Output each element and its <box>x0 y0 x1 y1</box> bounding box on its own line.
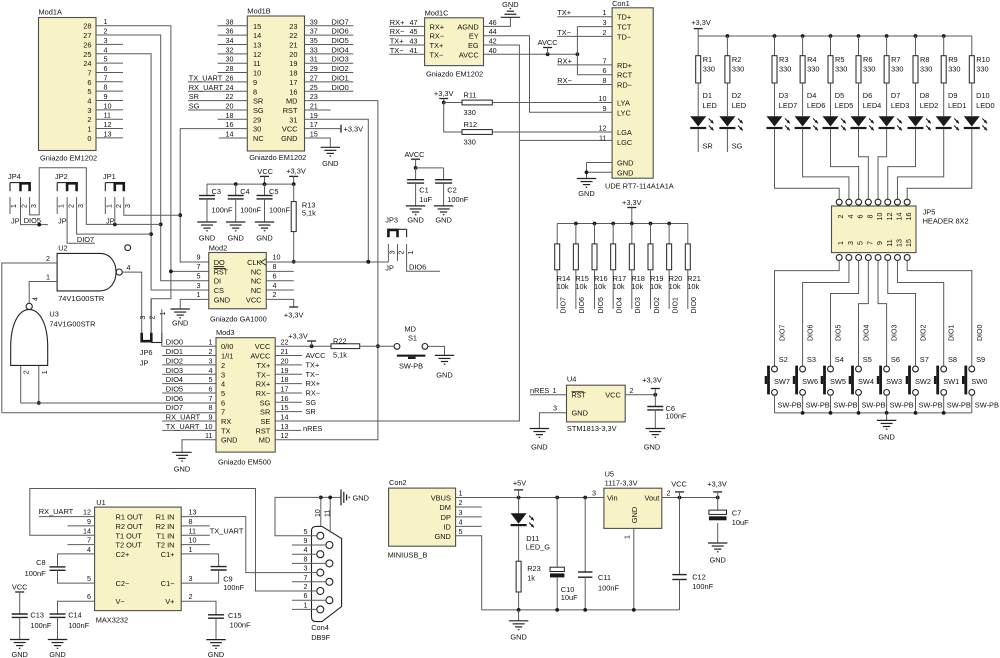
wire Con4 pins 10 11 to ground <box>315 496 341 533</box>
svg-text:37: 37 <box>310 27 318 36</box>
svg-text:LYC: LYC <box>617 108 631 117</box>
svg-text:GND: GND <box>407 216 423 225</box>
svg-text:GND: GND <box>214 295 230 304</box>
svg-text:9: 9 <box>87 517 91 526</box>
svg-text:10: 10 <box>189 536 197 545</box>
ground at USB rail <box>509 610 528 642</box>
wire LED bank rail <box>698 34 972 38</box>
IC U4 STM1813-3,3V <box>553 375 634 433</box>
svg-text:24: 24 <box>226 83 234 92</box>
svg-text:C5: C5 <box>269 187 278 196</box>
svg-text:Gniazdo EM1202: Gniazdo EM1202 <box>426 70 483 79</box>
svg-text:10: 10 <box>104 101 112 110</box>
svg-text:RX−: RX− <box>256 389 271 398</box>
Mod3 right net label stubs <box>275 351 326 416</box>
svg-text:12: 12 <box>599 124 607 133</box>
svg-text:CS: CS <box>214 286 224 295</box>
svg-text:1: 1 <box>459 489 463 498</box>
svg-text:R2 OUT: R2 OUT <box>116 522 144 531</box>
capacitor C9 100nF <box>181 554 244 592</box>
wire VCC rail <box>207 182 296 186</box>
svg-text:3: 3 <box>140 315 147 319</box>
svg-text:12: 12 <box>886 213 894 221</box>
connector Mod3 (Gniazdo EM500) <box>205 328 289 467</box>
svg-text:SW5: SW5 <box>830 377 846 386</box>
svg-text:AVCC: AVCC <box>250 352 271 361</box>
resistor R15 10k <box>573 224 589 314</box>
switch S4 SW5 SW-PB <box>821 325 858 413</box>
ground at Mod1C pin46 AGND <box>484 0 521 27</box>
svg-text:DIO5: DIO5 <box>836 325 843 341</box>
resistor R3 330 <box>772 36 791 83</box>
svg-text:LED: LED <box>732 101 746 110</box>
resistor R4 330 <box>800 36 819 83</box>
svg-text:RX+: RX+ <box>390 18 405 27</box>
svg-text:4: 4 <box>459 517 463 526</box>
svg-text:15: 15 <box>253 22 261 31</box>
svg-text:3: 3 <box>304 564 308 573</box>
svg-text:AGND: AGND <box>457 22 478 31</box>
resistor R10 330 <box>969 36 990 83</box>
Mod1B pin21 stub <box>305 101 331 110</box>
svg-text:+3,3V: +3,3V <box>642 376 662 385</box>
net label DIO6 at JP3 pin1 <box>407 261 440 272</box>
switch S2 SW7 SW-PB <box>765 325 802 413</box>
svg-text:3: 3 <box>87 106 91 115</box>
svg-text:Con4: Con4 <box>311 623 329 632</box>
svg-text:Mod2: Mod2 <box>209 243 228 252</box>
svg-text:8: 8 <box>866 214 874 218</box>
Mod1C left net label stubs <box>389 18 424 55</box>
svg-text:17: 17 <box>310 120 318 129</box>
svg-text:10k: 10k <box>687 282 699 291</box>
svg-text:V+: V+ <box>165 597 174 606</box>
net label TX_UART at Mod3 pin10 <box>162 422 216 431</box>
svg-text:JP: JP <box>140 359 149 368</box>
resistor R17 10k <box>611 224 627 314</box>
svg-text:TX_UART: TX_UART <box>210 526 244 535</box>
svg-text:DIO6: DIO6 <box>579 297 586 313</box>
svg-text:RX+: RX+ <box>430 22 445 31</box>
wire Con2 GND to bottom rail <box>456 536 482 610</box>
svg-text:Con1: Con1 <box>612 0 630 8</box>
no-connect circle near U2 <box>125 245 131 251</box>
svg-text:100nF: 100nF <box>25 569 46 578</box>
svg-text:GND: GND <box>322 159 338 168</box>
svg-text:36: 36 <box>226 27 234 36</box>
svg-text:SG: SG <box>260 398 271 407</box>
svg-text:NC: NC <box>251 267 262 276</box>
svg-text:SR: SR <box>260 408 270 417</box>
svg-text:10: 10 <box>315 509 322 517</box>
wire U2 input pin1 from U3 output <box>29 273 57 304</box>
svg-text:JP1: JP1 <box>103 172 116 181</box>
svg-text:35: 35 <box>310 36 318 45</box>
svg-text:CLK: CLK <box>247 258 261 267</box>
svg-text:nRES: nRES <box>303 424 322 433</box>
svg-text:5: 5 <box>304 527 308 536</box>
svg-text:5: 5 <box>221 389 225 398</box>
jumper JP2 <box>55 172 85 226</box>
svg-text:TX−: TX− <box>306 370 320 379</box>
svg-text:31: 31 <box>289 115 297 124</box>
svg-text:2: 2 <box>221 361 225 370</box>
svg-text:6: 6 <box>304 591 308 600</box>
svg-text:DIO0: DIO0 <box>977 325 984 341</box>
svg-text:RX_UART: RX_UART <box>39 507 74 516</box>
svg-text:5,1k: 5,1k <box>333 351 347 360</box>
wire U5 Vout to VCC +3,3V <box>662 496 720 500</box>
connector Mod1C (Gniazdo EM1202) <box>425 8 484 78</box>
svg-text:C1−: C1− <box>161 579 175 588</box>
svg-text:GND: GND <box>644 443 660 452</box>
svg-text:3: 3 <box>125 204 132 208</box>
wire U1 pin14 T1 OUT loop to Con4 pin2 <box>30 489 292 592</box>
svg-text:31: 31 <box>310 55 318 64</box>
svg-text:LED0: LED0 <box>976 101 995 110</box>
svg-text:100nF: 100nF <box>223 583 244 592</box>
svg-text:SW4: SW4 <box>858 377 874 386</box>
svg-text:RX_UART: RX_UART <box>166 413 201 422</box>
power +3,3V at Mod3 VCC pin22 <box>275 332 331 349</box>
ground at S1 <box>428 346 454 379</box>
svg-text:1: 1 <box>304 600 308 609</box>
svg-text:+3,3V: +3,3V <box>344 125 364 134</box>
wire EG Mod1C pin42 to Con1 LGC and Mod3 SE <box>275 37 612 422</box>
svg-text:30: 30 <box>253 125 261 134</box>
svg-text:C11: C11 <box>598 573 611 582</box>
svg-text:JP: JP <box>106 217 115 226</box>
svg-text:2: 2 <box>603 28 607 37</box>
svg-text:4: 4 <box>209 366 213 375</box>
jumper JP1 <box>103 172 132 226</box>
svg-text:LED4: LED4 <box>863 101 882 110</box>
svg-text:S2: S2 <box>779 355 788 364</box>
svg-text:6: 6 <box>87 78 91 87</box>
svg-text:100nF: 100nF <box>666 412 687 421</box>
wire JP4 pin3 to JP1 pin2 and Mod1A pin2 net <box>30 168 161 227</box>
power AVCC at C1 <box>405 150 426 170</box>
svg-text:JP: JP <box>11 217 20 226</box>
LED D2 <box>719 83 746 130</box>
svg-text:7: 7 <box>87 536 91 545</box>
power +3,3V at Mod2 VCC <box>266 299 303 319</box>
capacitor C6 100nF <box>644 395 687 452</box>
LED D10 <box>964 83 995 130</box>
net label DIO5 at JP4 pin2 <box>21 214 48 227</box>
svg-text:SW7: SW7 <box>774 377 790 386</box>
svg-text:22: 22 <box>289 31 297 40</box>
svg-text:74V1G00STR: 74V1G00STR <box>49 319 95 328</box>
svg-text:SG: SG <box>189 101 200 110</box>
svg-text:D9: D9 <box>948 91 957 100</box>
svg-text:44: 44 <box>489 27 497 36</box>
power +3,3V at R13 <box>286 167 306 185</box>
svg-text:R7: R7 <box>891 55 900 64</box>
svg-text:VCC: VCC <box>246 295 262 304</box>
svg-text:26: 26 <box>83 40 91 49</box>
svg-text:7: 7 <box>866 241 874 245</box>
svg-text:5: 5 <box>104 55 108 64</box>
svg-text:SW3: SW3 <box>886 377 902 386</box>
switch S9 SW0 SW-PB <box>962 325 999 413</box>
svg-text:1: 1 <box>58 204 65 208</box>
svg-text:2: 2 <box>87 115 91 124</box>
svg-text:1: 1 <box>87 125 91 134</box>
svg-text:7: 7 <box>221 408 225 417</box>
svg-text:+3,3V: +3,3V <box>286 167 306 176</box>
svg-text:T2 IN: T2 IN <box>156 541 174 550</box>
svg-text:100nF: 100nF <box>692 582 713 591</box>
svg-text:10k: 10k <box>650 282 662 291</box>
svg-text:AVCC: AVCC <box>459 50 480 59</box>
svg-text:32: 32 <box>226 45 234 54</box>
ground at Mod1B pin15 <box>305 130 341 169</box>
svg-text:9: 9 <box>197 253 201 262</box>
svg-text:LED5: LED5 <box>835 101 854 110</box>
svg-text:VCC: VCC <box>671 479 687 488</box>
svg-text:R1 IN: R1 IN <box>156 513 175 522</box>
svg-text:U1: U1 <box>96 498 105 507</box>
Mod1A pin stubs 1-13 <box>96 17 123 138</box>
svg-text:GND: GND <box>617 168 633 177</box>
svg-text:EY: EY <box>469 32 479 41</box>
capacitor C12 100nF <box>672 498 713 610</box>
svg-text:25: 25 <box>83 50 91 59</box>
svg-text:GND: GND <box>878 432 894 441</box>
svg-text:RX−: RX− <box>390 27 405 36</box>
svg-text:T1 IN: T1 IN <box>156 531 174 540</box>
svg-text:SW-PB: SW-PB <box>399 362 423 371</box>
svg-text:DIO6: DIO6 <box>808 325 815 341</box>
svg-text:LED2: LED2 <box>920 101 939 110</box>
svg-text:330: 330 <box>807 65 819 74</box>
svg-text:10: 10 <box>205 422 213 431</box>
svg-text:Mod1B: Mod1B <box>247 7 270 16</box>
svg-text:3: 3 <box>459 508 463 517</box>
svg-text:4: 4 <box>87 545 91 554</box>
wire Mod1A pin1 to Mod2 RST <box>96 26 209 333</box>
svg-text:3: 3 <box>189 574 193 583</box>
svg-text:330: 330 <box>779 65 791 74</box>
svg-text:100nF: 100nF <box>212 206 233 215</box>
svg-text:TX+: TX+ <box>430 41 444 50</box>
svg-text:21: 21 <box>310 101 318 110</box>
ground at Mod3 GND pin11 <box>172 440 216 474</box>
svg-text:13: 13 <box>281 422 289 431</box>
svg-text:38: 38 <box>226 17 234 26</box>
svg-text:1: 1 <box>603 8 607 17</box>
svg-text:R10: R10 <box>976 55 990 64</box>
svg-text:S1: S1 <box>408 333 417 342</box>
svg-text:15: 15 <box>310 130 318 139</box>
svg-text:1k: 1k <box>527 573 535 582</box>
svg-text:+3,3V: +3,3V <box>288 332 308 341</box>
svg-text:C2+: C2+ <box>116 550 130 559</box>
wire VBUS +5V rail to U5 Vin <box>456 496 604 500</box>
svg-text:DIO5: DIO5 <box>598 297 605 313</box>
svg-text:4: 4 <box>87 97 91 106</box>
svg-text:C15: C15 <box>228 611 242 620</box>
svg-text:100nF: 100nF <box>598 583 619 592</box>
svg-text:+3,3V: +3,3V <box>691 18 711 27</box>
svg-text:R11: R11 <box>464 91 477 100</box>
svg-text:SW2: SW2 <box>915 377 931 386</box>
svg-text:1: 1 <box>11 204 18 208</box>
svg-text:TX+: TX+ <box>306 360 320 369</box>
net label RX+ at Con1 pin7 <box>557 56 612 65</box>
wire Mod1B pin19 to Mod2 CLK <box>305 111 371 264</box>
wire JP1 pin2 down to net <box>114 214 116 224</box>
svg-text:2: 2 <box>46 254 50 263</box>
svg-text:9: 9 <box>876 241 884 245</box>
svg-text:10k: 10k <box>631 282 643 291</box>
svg-text:7: 7 <box>87 68 91 77</box>
svg-text:LED6: LED6 <box>807 101 826 110</box>
resistor R8 330 <box>913 36 932 83</box>
svg-text:100nF: 100nF <box>240 206 261 215</box>
svg-text:330: 330 <box>732 65 744 74</box>
svg-text:14: 14 <box>226 130 234 139</box>
power +5V <box>513 479 526 498</box>
resistor R19 10k <box>648 224 664 314</box>
svg-text:TX−: TX− <box>557 28 571 37</box>
svg-text:NC: NC <box>251 277 262 286</box>
jumper JP3 (mirrored) <box>385 216 415 273</box>
svg-text:C13: C13 <box>30 611 44 620</box>
resistor R21 10k <box>685 224 701 314</box>
svg-text:22: 22 <box>226 92 234 101</box>
capacitor C8 100nF <box>25 554 95 583</box>
svg-text:GND: GND <box>502 0 518 9</box>
svg-text:AVCC: AVCC <box>405 150 426 159</box>
svg-text:GND: GND <box>208 650 224 658</box>
power +3,3V at R11 <box>434 89 454 104</box>
svg-text:8: 8 <box>104 83 108 92</box>
svg-text:C14: C14 <box>68 611 82 620</box>
svg-text:U5: U5 <box>605 470 614 479</box>
U1 pin8 stub <box>181 525 210 527</box>
svg-text:LGC: LGC <box>617 138 633 147</box>
svg-text:Gniazdo EM1202: Gniazdo EM1202 <box>249 153 306 162</box>
jumper JP4 <box>8 172 38 226</box>
svg-text:T2 OUT: T2 OUT <box>116 541 143 550</box>
net label TX_UART at Mod1B pin 26 <box>188 73 247 82</box>
switch S6 SW3 SW-PB <box>877 325 914 413</box>
power VCC at U5 <box>671 479 687 497</box>
wire switch ground rail <box>775 411 972 415</box>
svg-text:D1: D1 <box>703 91 712 100</box>
svg-text:TCT: TCT <box>617 23 632 32</box>
svg-text:19: 19 <box>289 59 297 68</box>
svg-text:8: 8 <box>603 76 607 85</box>
svg-text:D5: D5 <box>835 91 844 100</box>
svg-text:D2: D2 <box>732 91 741 100</box>
svg-text:10: 10 <box>253 69 261 78</box>
svg-text:DIO5: DIO5 <box>166 384 183 393</box>
wire U3 inputs tied to DIO6 net <box>21 366 216 405</box>
resistor R11 330 <box>444 91 493 118</box>
svg-text:14: 14 <box>281 413 289 422</box>
net label nRES at Mod3 pin13 <box>275 424 322 433</box>
LED D7 <box>879 83 910 130</box>
svg-text:DIO3: DIO3 <box>332 55 349 64</box>
connector Mod1B (Gniazdo EM1202) <box>247 7 306 163</box>
wires JP5 bottom pins to switches <box>775 261 840 367</box>
svg-text:DIO7: DIO7 <box>332 17 349 26</box>
svg-text:3: 3 <box>603 18 607 27</box>
svg-text:34: 34 <box>226 36 234 45</box>
svg-text:LYA: LYA <box>617 99 630 108</box>
svg-text:20: 20 <box>281 356 289 365</box>
svg-text:1: 1 <box>408 250 415 254</box>
svg-text:U4: U4 <box>567 375 576 384</box>
svg-text:SW-PB: SW-PB <box>919 401 943 410</box>
svg-text:MD: MD <box>405 324 417 333</box>
wire Mod1A pin2 to Mod2 DI <box>96 35 209 281</box>
svg-text:+3,3V: +3,3V <box>707 479 727 488</box>
svg-text:+5V: +5V <box>513 479 526 488</box>
capacitor C3 100nF <box>197 184 233 242</box>
wire Con1 RCT to AVCC bracket <box>577 74 612 76</box>
power AVCC near Con1 <box>538 38 559 54</box>
svg-text:3: 3 <box>78 204 85 208</box>
svg-text:18: 18 <box>289 69 297 78</box>
svg-text:RX+: RX+ <box>306 379 321 388</box>
svg-text:DIO7: DIO7 <box>77 235 94 244</box>
svg-text:DIO0: DIO0 <box>691 297 698 313</box>
net label RX_UART at U1 pin12 <box>39 507 95 516</box>
svg-text:SG: SG <box>306 398 317 407</box>
svg-text:11: 11 <box>205 431 212 440</box>
svg-text:D8: D8 <box>920 91 929 100</box>
resistor R20 10k <box>667 224 683 314</box>
svg-text:100nF: 100nF <box>68 621 89 630</box>
svg-text:SR: SR <box>306 407 316 416</box>
svg-text:DIO2: DIO2 <box>921 325 928 341</box>
resistor R13 5,1k <box>291 184 316 264</box>
svg-text:330: 330 <box>464 138 476 147</box>
svg-text:41: 41 <box>410 46 418 55</box>
svg-text:DIO3: DIO3 <box>635 297 642 313</box>
resistor R9 330 <box>941 36 960 83</box>
svg-text:GND: GND <box>617 159 633 168</box>
svg-text:5: 5 <box>87 87 91 96</box>
svg-text:1: 1 <box>104 17 108 26</box>
svg-text:MD: MD <box>286 97 298 106</box>
svg-text:5: 5 <box>197 271 201 280</box>
resistor R12 330 <box>444 103 493 147</box>
svg-text:5: 5 <box>209 375 213 384</box>
svg-text:RX_UART: RX_UART <box>189 83 224 92</box>
svg-text:GND: GND <box>630 507 639 523</box>
svg-text:VBUS: VBUS <box>431 494 451 503</box>
svg-text:42: 42 <box>489 37 497 46</box>
svg-text:10uF: 10uF <box>561 593 578 602</box>
svg-text:DIO4: DIO4 <box>864 325 871 341</box>
svg-text:4: 4 <box>221 380 225 389</box>
svg-text:LED: LED <box>703 101 717 110</box>
svg-text:100nF: 100nF <box>30 621 51 630</box>
svg-text:nRES: nRES <box>530 386 549 395</box>
svg-text:MAX3232: MAX3232 <box>96 616 128 625</box>
svg-text:V−: V− <box>116 597 125 606</box>
svg-text:DB9F: DB9F <box>311 633 330 642</box>
svg-text:330: 330 <box>920 65 932 74</box>
svg-text:5: 5 <box>459 527 463 536</box>
svg-text:9: 9 <box>104 92 108 101</box>
svg-text:13: 13 <box>253 41 261 50</box>
